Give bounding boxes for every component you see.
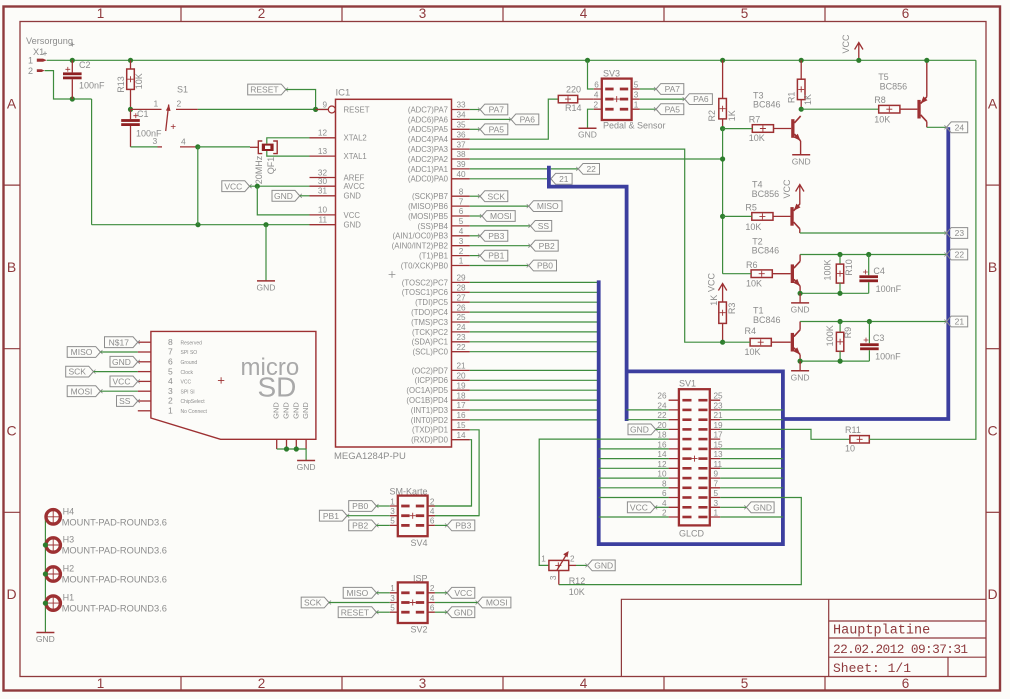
svg-text:36: 36 — [456, 130, 466, 139]
svg-text:MOSI: MOSI — [490, 211, 512, 221]
svg-text:24: 24 — [955, 122, 965, 132]
wire SV4 pin 2 up — [435, 505, 472, 507]
svg-text:3: 3 — [153, 136, 158, 146]
svg-text:3: 3 — [549, 575, 558, 580]
svg-text:SD: SD — [258, 372, 297, 403]
wire RXD PD0 to SM-Karte pin 2 — [427, 440, 472, 506]
svg-text:R6: R6 — [746, 260, 758, 270]
svg-text:(SCL)PC0: (SCL)PC0 — [412, 348, 448, 357]
VCC net symbol on rail — [855, 43, 863, 61]
T2 emitter ground wire — [800, 292, 869, 294]
svg-text:N$17: N$17 — [109, 337, 130, 347]
svg-text:15: 15 — [456, 421, 466, 430]
flag 24 on bus — [946, 122, 967, 133]
svg-text:20: 20 — [456, 372, 466, 381]
svg-text:R4: R4 — [745, 326, 757, 336]
svg-text:24: 24 — [456, 323, 466, 332]
svg-text:(AIN1/OC0)PB3: (AIN1/OC0)PB3 — [393, 232, 448, 241]
bus segment A from flags 21/22 — [549, 166, 627, 421]
RESET flag — [248, 84, 286, 95]
svg-text:QF1: QF1 — [266, 157, 276, 175]
svg-text:10: 10 — [657, 470, 667, 479]
svg-text:D: D — [987, 586, 997, 602]
svg-text:(TOSC2)PC7: (TOSC2)PC7 — [402, 278, 448, 287]
flag MISO at pin 7 — [470, 205, 529, 207]
ground symbol below T2 — [791, 302, 809, 304]
svg-text:SS: SS — [538, 221, 550, 231]
svg-text:R5: R5 — [745, 203, 757, 213]
junction S1 branch on gnd rail — [195, 222, 200, 227]
flag MOSI at pin 6 — [470, 215, 482, 217]
resistor R1 — [799, 58, 804, 63]
svg-text:PA6: PA6 — [693, 94, 709, 104]
svg-text:SV3: SV3 — [603, 69, 620, 79]
svg-text:RESET: RESET — [250, 85, 278, 95]
svg-text:GND: GND — [291, 402, 300, 419]
svg-text:MOSI: MOSI — [71, 386, 93, 396]
svg-text:VCC: VCC — [782, 179, 792, 199]
IC1 left pins — [316, 109, 329, 111]
flag PB1 at pin 2 — [470, 255, 480, 257]
svg-text:2: 2 — [662, 509, 667, 518]
R12 pin2 wire to GND flag — [569, 564, 576, 566]
svg-text:10K: 10K — [874, 115, 890, 125]
svg-text:1K: 1K — [709, 295, 719, 306]
flag PA6 at SV3 pin 3 — [640, 98, 685, 100]
svg-text:18: 18 — [456, 391, 466, 400]
svg-text:R10: R10 — [844, 259, 854, 276]
svg-text:35: 35 — [456, 121, 466, 130]
svg-text:100nF: 100nF — [876, 284, 902, 294]
svg-text:3: 3 — [419, 676, 427, 691]
svg-text:(MISO)PB6: (MISO)PB6 — [408, 202, 448, 211]
svg-text:13: 13 — [714, 450, 724, 459]
svg-text:28: 28 — [456, 284, 466, 293]
svg-text:BC856: BC856 — [880, 82, 908, 92]
svg-text:H1: H1 — [63, 593, 75, 603]
svg-text:6: 6 — [459, 207, 464, 216]
svg-text:21: 21 — [456, 362, 466, 371]
svg-text:VCC: VCC — [841, 34, 851, 54]
svg-text:H4: H4 — [63, 506, 75, 516]
svg-text:14: 14 — [657, 450, 667, 459]
GND flag at SV1 pin 20 — [628, 424, 656, 435]
flag 21 on bus — [946, 316, 967, 327]
svg-text:(TMS)PC3: (TMS)PC3 — [411, 318, 448, 327]
mount pad H2 — [46, 567, 60, 581]
svg-text:GND: GND — [297, 462, 316, 472]
svg-text:29: 29 — [456, 274, 466, 283]
capacitor C1 — [130, 109, 132, 119]
svg-text:1: 1 — [541, 555, 546, 564]
junction reset node — [313, 107, 318, 112]
svg-text:PB2: PB2 — [539, 241, 555, 251]
VCC flag at AVCC — [222, 181, 250, 192]
svg-text:4: 4 — [580, 676, 588, 691]
svg-text:1: 1 — [714, 509, 719, 518]
wire T5 collector to flag 24 — [927, 126, 947, 128]
svg-text:(INT0)PD2: (INT0)PD2 — [411, 416, 448, 425]
svg-text:9: 9 — [714, 470, 719, 479]
svg-text:2: 2 — [177, 99, 182, 109]
svg-text:1: 1 — [97, 676, 105, 691]
GND flag at pin 31 — [272, 190, 300, 201]
wire SV3 pin6 to VCC rail — [585, 58, 590, 63]
mount pad wire — [44, 517, 46, 633]
svg-text:(T1)PB1: (T1)PB1 — [419, 252, 448, 261]
svg-text:PB3: PB3 — [488, 231, 504, 241]
junction R13 bottom — [128, 107, 133, 112]
resistor R13 — [128, 58, 133, 63]
svg-text:PB1: PB1 — [323, 511, 339, 521]
svg-text:T1: T1 — [753, 306, 764, 316]
svg-text:21: 21 — [955, 317, 965, 327]
GND flag at SV1 pin 3 — [746, 502, 774, 513]
svg-text:6: 6 — [902, 6, 910, 21]
svg-text:39: 39 — [456, 160, 466, 169]
svg-text:MISO: MISO — [71, 347, 93, 357]
svg-text:R13: R13 — [116, 76, 126, 93]
svg-text:32: 32 — [318, 168, 328, 177]
flag RESET at SV2 pin 5 — [338, 607, 376, 618]
svg-text:BC846: BC846 — [753, 100, 781, 110]
wire T1 collector to flag 21 — [800, 321, 946, 323]
svg-text:10K: 10K — [745, 347, 761, 357]
wires PC7-PC0 to bus — [470, 281, 599, 283]
flag PA5 at SV3 pin 1 — [640, 108, 656, 110]
VCC rail wire — [47, 59, 976, 61]
svg-text:11: 11 — [319, 216, 328, 225]
capacitor C3 — [868, 322, 870, 344]
ground symbol below IC — [257, 280, 275, 282]
svg-text:1: 1 — [154, 99, 159, 109]
wire X1-2 to ground net — [45, 71, 92, 99]
svg-text:A: A — [988, 95, 998, 111]
bus segment B from IC ports — [599, 280, 783, 544]
svg-text:GND: GND — [791, 304, 810, 314]
svg-text:3: 3 — [459, 237, 464, 246]
svg-text:3: 3 — [714, 499, 719, 508]
svg-text:1: 1 — [97, 6, 105, 21]
svg-text:VCC: VCC — [113, 377, 131, 387]
svg-text:37: 37 — [456, 140, 466, 149]
svg-text:5: 5 — [390, 517, 395, 526]
svg-text:7: 7 — [459, 197, 464, 206]
svg-text:SCK: SCK — [68, 367, 86, 377]
flag SCK at SD pin 5 — [66, 366, 94, 377]
svg-text:GND: GND — [594, 561, 613, 571]
svg-text:4: 4 — [168, 376, 173, 386]
svg-text:(ADC4)PA4: (ADC4)PA4 — [408, 135, 449, 144]
svg-text:D: D — [6, 586, 16, 602]
wire PA0 pin 40 to bus — [470, 178, 547, 180]
svg-text:MOSI: MOSI — [486, 598, 508, 608]
wire RESET flag to IC pin 9 — [286, 90, 316, 110]
flag GND at SV2 pin 6 — [447, 607, 475, 618]
SV1 wires left to bus B — [599, 448, 669, 450]
svg-text:XTAL2: XTAL2 — [344, 134, 367, 143]
svg-text:1K: 1K — [803, 94, 813, 105]
svg-text:SCK: SCK — [488, 191, 506, 201]
resistor R9 — [839, 322, 841, 333]
svg-text:26: 26 — [657, 392, 667, 401]
junction R3/R4/PA3 — [720, 340, 725, 345]
svg-text:GND: GND — [454, 607, 473, 617]
svg-text:100nF: 100nF — [875, 352, 901, 362]
svg-text:(ADC2)PA2: (ADC2)PA2 — [408, 155, 448, 164]
flag PB2 at SV4 pin 5 — [349, 520, 377, 531]
svg-text:(ADC7)PA7: (ADC7)PA7 — [408, 105, 448, 114]
svg-text:2: 2 — [258, 676, 266, 691]
svg-text:27: 27 — [456, 293, 466, 302]
svg-text:GND: GND — [272, 402, 281, 419]
wire ladder corner to R6 — [723, 273, 752, 275]
svg-text:BC856: BC856 — [752, 189, 780, 199]
svg-text:1: 1 — [390, 497, 395, 506]
ground symbol below micro SD — [297, 460, 315, 462]
mount pad H3 — [46, 538, 60, 552]
svg-text:23: 23 — [714, 401, 724, 410]
flag GND at SD pin 6 — [110, 356, 138, 367]
wire SV1 pin 5 to R12 pin 3 — [559, 498, 802, 585]
svg-text:Versorgung: Versorgung — [26, 36, 73, 46]
svg-text:8: 8 — [662, 479, 667, 488]
wire to GND symbol — [265, 225, 267, 281]
svg-text:(TDI)PC5: (TDI)PC5 — [415, 298, 449, 307]
junction S1 pin4 — [195, 144, 200, 149]
svg-text:4: 4 — [430, 594, 435, 603]
svg-text:A: A — [7, 95, 17, 111]
svg-text:(SCK)PB7: (SCK)PB7 — [412, 192, 448, 201]
frame column ticks bottom — [180, 677, 182, 691]
svg-text:VCC: VCC — [454, 588, 472, 598]
svg-text:PA6: PA6 — [520, 115, 536, 125]
flag PA7 at pin 33 — [470, 109, 480, 111]
svg-text:GND: GND — [578, 130, 597, 140]
svg-text:R8: R8 — [874, 95, 886, 105]
resistor R10 — [839, 255, 841, 265]
wire PA1 pin 39 to bus — [470, 168, 547, 170]
T1 emitter ground wire — [800, 360, 869, 362]
svg-text:22: 22 — [657, 411, 667, 420]
wire crystal to XTAL1 pin 13 — [267, 151, 310, 156]
svg-text:C1: C1 — [137, 109, 149, 119]
svg-text:SV2: SV2 — [411, 625, 428, 635]
svg-text:7: 7 — [714, 479, 719, 488]
svg-text:(TOSC1)PC6: (TOSC1)PC6 — [402, 288, 448, 297]
svg-text:22: 22 — [586, 164, 596, 174]
svg-text:22: 22 — [456, 343, 466, 352]
wire TXD PD1 to SM-Karte pin 4 — [427, 430, 479, 516]
svg-text:GND: GND — [792, 156, 811, 166]
svg-text:(ICP)PD6: (ICP)PD6 — [415, 376, 448, 385]
svg-text:33: 33 — [456, 101, 466, 110]
svg-text:(OC1A)PD5: (OC1A)PD5 — [406, 386, 448, 395]
svg-text:VCC: VCC — [181, 380, 192, 386]
svg-text:Hauptplatine: Hauptplatine — [833, 624, 930, 639]
svg-text:100K: 100K — [823, 259, 833, 280]
svg-text:B: B — [7, 259, 16, 275]
title block frame — [621, 599, 986, 676]
svg-text:3: 3 — [168, 386, 173, 396]
svg-text:PA5: PA5 — [489, 124, 505, 134]
svg-text:(T0/XCK)PB0: (T0/XCK)PB0 — [401, 261, 449, 270]
svg-text:PB2: PB2 — [352, 521, 368, 531]
wire C1 bottom to switch — [131, 146, 158, 148]
mount pad H4 — [46, 510, 60, 524]
resistor R11 — [850, 436, 869, 443]
svg-text:3: 3 — [419, 6, 427, 21]
junction R2 bottom — [720, 126, 725, 131]
svg-text:7: 7 — [168, 347, 173, 357]
svg-text:T4: T4 — [752, 180, 763, 190]
svg-text:GND: GND — [274, 191, 293, 201]
svg-text:S1: S1 — [177, 85, 188, 95]
svg-text:19: 19 — [456, 381, 466, 390]
svg-text:13: 13 — [318, 147, 328, 156]
junction pin38 wire — [720, 156, 725, 161]
svg-text:10: 10 — [845, 444, 855, 454]
svg-text:22: 22 — [955, 250, 965, 260]
svg-text:R14: R14 — [565, 103, 582, 113]
svg-text:5: 5 — [634, 80, 639, 89]
svg-text:R11: R11 — [845, 425, 861, 435]
svg-text:PA5: PA5 — [665, 104, 681, 114]
svg-text:B: B — [988, 259, 997, 275]
flag N$17 at SD pin 8 — [105, 337, 138, 348]
frame column ticks top — [180, 7, 182, 22]
svg-text:VCC: VCC — [630, 502, 648, 512]
SV1 wires left to bus A — [627, 409, 669, 411]
svg-text:SPI SO: SPI SO — [181, 350, 198, 356]
svg-text:1: 1 — [168, 406, 173, 416]
flag PA7 at SV3 pin 5 — [640, 88, 656, 90]
flag MISO at SV2 pin 1 — [343, 587, 376, 598]
flag PA6 at pin 34 — [470, 118, 511, 120]
svg-text:12: 12 — [657, 460, 667, 469]
flag PB0 at SV4 pin 1 — [349, 501, 377, 512]
svg-text:10K: 10K — [134, 73, 144, 89]
flag 22 on bus — [946, 249, 967, 260]
svg-text:(MOSI)PB5: (MOSI)PB5 — [408, 212, 449, 221]
IC1 body — [336, 99, 452, 447]
svg-text:9: 9 — [322, 100, 327, 109]
svg-text:GND: GND — [301, 402, 310, 419]
resistor R2 — [720, 58, 725, 63]
svg-text:100K: 100K — [825, 325, 835, 346]
wire SD ground pins — [277, 448, 306, 450]
svg-text:1: 1 — [28, 56, 33, 66]
flag PB1 at SV4 pin 3 — [319, 510, 347, 521]
frame row ticks right — [986, 184, 1000, 186]
svg-text:8: 8 — [168, 337, 173, 347]
ground symbol below T3 — [792, 154, 810, 156]
svg-text:T5: T5 — [878, 72, 889, 82]
svg-text:23: 23 — [955, 228, 965, 238]
wires PD7-PD2 to bus — [470, 369, 599, 371]
svg-text:30: 30 — [318, 177, 328, 186]
svg-text:(ADC5)PA5: (ADC5)PA5 — [408, 125, 449, 134]
svg-text:(TCK)PC2: (TCK)PC2 — [412, 328, 448, 337]
IC1 origin cross — [389, 271, 396, 278]
svg-text:10: 10 — [318, 206, 328, 215]
flag PB2 at pin 3 — [470, 245, 531, 247]
flag PB3 at pin 4 — [470, 235, 480, 237]
svg-text:2: 2 — [28, 66, 33, 76]
wire SV1 pin 19 to R11 — [720, 429, 850, 439]
svg-text:R2: R2 — [707, 110, 717, 122]
svg-text:24: 24 — [657, 401, 667, 410]
micro SD pins — [138, 341, 151, 343]
svg-text:GND: GND — [112, 357, 131, 367]
svg-text:4: 4 — [430, 507, 435, 516]
wire SV3 pin2 to ground — [588, 109, 594, 128]
svg-text:GND: GND — [36, 634, 55, 644]
SV1 pads and stubs — [682, 399, 691, 402]
svg-text:20: 20 — [657, 421, 667, 430]
VCC symbol at T4 emitter — [796, 185, 804, 205]
svg-text:(TDO)PC4: (TDO)PC4 — [411, 308, 448, 317]
svg-text:SPI SI: SPI SI — [181, 389, 195, 395]
wire R14 to SV3 pin 4 — [578, 98, 594, 100]
svg-text:SV4: SV4 — [411, 538, 428, 548]
svg-text:11: 11 — [714, 460, 723, 469]
svg-text:(OC1B)PD4: (OC1B)PD4 — [406, 396, 448, 405]
svg-text:RESET: RESET — [341, 607, 369, 617]
ground symbol below mount pads — [36, 632, 54, 634]
svg-text:10K: 10K — [745, 222, 761, 232]
flag 23 on bus — [946, 228, 967, 239]
svg-text:25: 25 — [714, 392, 724, 401]
svg-text:GND: GND — [791, 372, 810, 382]
svg-text:PB0: PB0 — [537, 261, 553, 271]
svg-text:5: 5 — [390, 604, 395, 613]
svg-text:2: 2 — [168, 396, 173, 406]
svg-text:3: 3 — [390, 594, 395, 603]
svg-text:R9: R9 — [843, 327, 853, 339]
svg-text:(ADC6)PA6: (ADC6)PA6 — [408, 115, 448, 124]
bus segment E to flags 24-21 — [783, 127, 948, 419]
svg-text:GND: GND — [344, 221, 362, 230]
svg-text:VCC: VCC — [707, 273, 717, 293]
svg-text:2: 2 — [593, 101, 598, 110]
svg-text:(SDA)PC1: (SDA)PC1 — [412, 338, 448, 347]
flag SS at SD pin 2 — [117, 396, 138, 407]
svg-text:12: 12 — [318, 129, 328, 138]
svg-text:40: 40 — [456, 170, 466, 179]
svg-text:3: 3 — [634, 90, 639, 99]
mount pad H1 — [46, 596, 60, 610]
SV1 wires right to bus D — [720, 409, 783, 411]
svg-text:MISO: MISO — [347, 588, 369, 598]
svg-text:PA7: PA7 — [489, 105, 505, 115]
svg-text:GND: GND — [630, 425, 649, 435]
flag 22 at pin 39 — [551, 168, 578, 170]
svg-text:15: 15 — [714, 440, 724, 449]
svg-text:Clock: Clock — [181, 370, 194, 376]
wire T2 collector to flag 22 — [800, 254, 946, 256]
wire crystal to XTAL2 pin 12 — [267, 138, 310, 144]
wire PA3 pin 37 to transistor area — [470, 149, 723, 342]
svg-text:C2: C2 — [79, 60, 91, 70]
svg-text:6: 6 — [594, 80, 599, 89]
svg-text:1: 1 — [459, 257, 464, 266]
svg-text:Ground: Ground — [181, 360, 198, 366]
svg-text:4: 4 — [181, 137, 186, 147]
svg-text:C4: C4 — [873, 266, 885, 276]
wire VCC to pins 30 and 10 — [250, 185, 310, 187]
wire PA2 pin 38 to base ladder — [470, 158, 723, 160]
